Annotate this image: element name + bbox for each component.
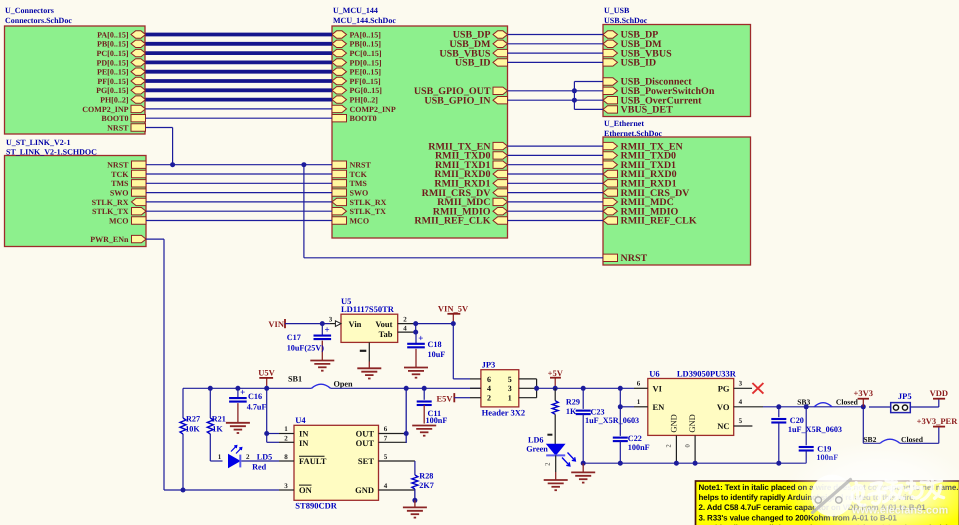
wire USB_ID [508, 61, 604, 63]
wire USB_DP [508, 34, 604, 36]
wire +5V rail [537, 387, 634, 389]
wire U5 output [416, 324, 454, 333]
sheet entry RMII_MDIO (MCU right) [433, 206, 508, 217]
sheet entry NRST (U_Connectors) [107, 123, 145, 132]
sheet entry USB_DP (USB) [603, 30, 658, 41]
sheet entry NRST (MCU left) [332, 161, 372, 170]
sheet entry STLK_TX (U_ST_LINK) [92, 207, 146, 216]
svg-text:PF[0..15]: PF[0..15] [97, 77, 128, 86]
svg-text:PG: PG [718, 383, 730, 393]
svg-text:USB_GPIO_IN: USB_GPIO_IN [424, 95, 491, 106]
pin 8 of U4 [279, 453, 294, 461]
svg-text:BOOT0: BOOT0 [101, 114, 128, 123]
power port +5V [548, 368, 564, 388]
svg-text:C22: C22 [628, 434, 642, 443]
sheet entry RMII_TXD1 (Ethernet) [603, 160, 676, 171]
svg-text:100nF: 100nF [426, 416, 448, 425]
wire 5V rail right of SB1 [331, 387, 481, 389]
junction C19 top / SB3 left [804, 404, 809, 409]
pin 4 of U5 (Tab) [398, 324, 416, 332]
sheet entry PE[0..15] (U_Connectors) [97, 68, 146, 77]
power port E5V [436, 393, 454, 404]
wire NRST branch to Ethernet [304, 165, 603, 258]
wire RMII_REF_CLK [508, 220, 604, 222]
sheet entry USB_Disconnect (USB) [603, 77, 692, 88]
sheet entry PB[0..15] (U_Connectors) [97, 40, 146, 49]
junction C20 bottom [776, 461, 781, 466]
wire JP5 to VDD [910, 399, 939, 407]
svg-text:100nF: 100nF [628, 443, 650, 452]
power port VIN_5V [438, 303, 469, 323]
svg-text:LD6: LD6 [528, 436, 543, 445]
svg-text:STLK_TX: STLK_TX [350, 207, 387, 216]
wire SWO [146, 192, 332, 194]
sheet entry PA[0..15] (U_Connectors) [97, 30, 145, 39]
sheet entry RMII_TXD0 (MCU right) [435, 151, 508, 162]
svg-text:10uF: 10uF [428, 350, 446, 359]
sheet entry COMP2_INP (MCU left) [332, 105, 396, 114]
power port U5V [258, 367, 275, 388]
wire +3V3 to JP5 [869, 406, 891, 408]
ground under C11 [412, 426, 436, 436]
junction C23 bottom / gnd rail [581, 461, 586, 466]
sheet entry RMII_TX_EN (MCU right) [428, 141, 507, 152]
watermark glow [785, 440, 959, 525]
junction C20 top [776, 404, 781, 409]
svg-text:MCU_144.SchDoc: MCU_144.SchDoc [333, 16, 396, 25]
svg-text:7: 7 [384, 434, 388, 442]
svg-text:NRST: NRST [350, 161, 372, 170]
pin 5 of JP3 [519, 378, 537, 380]
svg-text:8: 8 [284, 453, 288, 461]
svg-text:RMII_REF_CLK: RMII_REF_CLK [414, 216, 490, 227]
wire RMII_TXD0 [508, 154, 604, 156]
sheet entry PF[0..15] (U_Connectors) [97, 77, 145, 86]
svg-text:TCK: TCK [111, 170, 129, 179]
svg-text:1: 1 [218, 453, 222, 461]
svg-text:2: 2 [487, 394, 491, 403]
svg-text:U_Ethernet: U_Ethernet [604, 119, 644, 128]
svg-text:1uF_X5R_0603: 1uF_X5R_0603 [788, 425, 842, 434]
power port VIN [268, 319, 285, 329]
sheet entry BOOT0 (MCU left) [332, 114, 377, 123]
junction VIN_5V [451, 321, 456, 326]
sheet entry STLK_RX (U_ST_LINK) [92, 198, 146, 207]
pin 4 of U4 [379, 482, 415, 490]
sheet entry PD[0..15] (MCU left) [332, 58, 382, 67]
sheet entry PG[0..15] (U_Connectors) [96, 86, 145, 95]
sheet entry STLK_RX (MCU left) [332, 198, 387, 207]
junction U4 OUT riser [404, 386, 409, 391]
svg-text:U_ST_LINK_V2-1: U_ST_LINK_V2-1 [6, 138, 70, 147]
svg-text:COMP2_INP: COMP2_INP [350, 105, 396, 114]
sheet entry USB_VBUS (MCU right) [439, 48, 507, 59]
capacitor C23 1uF_X5R_0603 [576, 388, 639, 463]
junction C22/EN riser top [618, 386, 623, 391]
sheet entry USB_GPIO_OUT (MCU right) [414, 86, 508, 97]
svg-text:+: + [325, 325, 330, 335]
sheet entry TMS (MCU left) [332, 179, 367, 188]
svg-text:STLK_RX: STLK_RX [92, 198, 129, 207]
wire ground rail [583, 462, 806, 464]
svg-text:NRST: NRST [621, 253, 648, 264]
transistor U4 ST890CDR power switch [294, 415, 379, 511]
wire E5V to JP3 pin2 [454, 397, 470, 399]
svg-text:VIN_5V: VIN_5V [438, 303, 469, 313]
junction U5 out pin4 [413, 330, 418, 335]
sheet entry PH[0..2] (U_Connectors) [100, 96, 145, 105]
ground under C16 [226, 423, 250, 433]
op-amp U6 LD39050PU33R regulator [648, 369, 737, 436]
pin 4 of JP3 [470, 387, 481, 389]
wire EN to U6 [620, 406, 634, 408]
pin 1 of U5 GND [360, 342, 370, 368]
watermark elecfans logo circle [811, 475, 853, 517]
svg-text:1K: 1K [212, 424, 223, 433]
svg-text:SB1: SB1 [288, 375, 302, 384]
svg-text:R29: R29 [566, 397, 580, 406]
resistor R28 2K7 [412, 461, 434, 500]
sheet entry PB[0..15] (MCU left) [332, 40, 381, 49]
wire USB_VBUS [508, 52, 604, 54]
svg-text:Green: Green [526, 444, 548, 453]
svg-text:PC[0..15]: PC[0..15] [350, 49, 382, 58]
no connect X on PG [752, 383, 763, 394]
wire NRST ST-LINK to MCU [146, 164, 332, 166]
svg-text:COMP2_INP: COMP2_INP [82, 105, 128, 114]
svg-text:SWO: SWO [110, 189, 129, 198]
sheet entry MCO (U_ST_LINK) [109, 216, 146, 225]
svg-text:5: 5 [739, 417, 743, 425]
svg-text:10uF(25V): 10uF(25V) [287, 344, 325, 353]
ground under U4 [403, 500, 427, 517]
bus PH U_Connectors to MCU [146, 98, 333, 102]
sheet entry USB_OverCurrent (USB) [603, 95, 702, 106]
sheet entry PF[0..15] (MCU left) [332, 77, 381, 86]
svg-text:2: 2 [284, 434, 288, 442]
svg-text:JP3: JP3 [482, 359, 496, 369]
svg-text:NRST: NRST [107, 123, 129, 132]
junction R28/GND [412, 498, 417, 503]
svg-text:GND: GND [355, 485, 374, 495]
ground at C23 [571, 463, 595, 482]
pin 3 of U4 [279, 482, 294, 490]
wire COMP2_INP [146, 108, 333, 110]
pin 5 of U4 [379, 453, 415, 461]
sheet entry RMII_MDIO (Ethernet) [603, 206, 678, 217]
bus PA U_Connectors to MCU [146, 33, 333, 37]
sheet entry TCK (MCU left) [332, 170, 368, 179]
wire STLK_RX [146, 201, 332, 203]
svg-text:3: 3 [284, 482, 288, 490]
sheet entry RMII_RXD1 (MCU right) [434, 179, 507, 190]
svg-text:IN: IN [299, 438, 309, 448]
capacitor C18 10uF [407, 332, 445, 367]
sheet entry RMII_REF_CLK (MCU right) [414, 216, 507, 227]
pin 1 of U4 [279, 425, 294, 433]
pin 3 of U5 with input arrow [329, 316, 341, 327]
svg-text:MCO: MCO [350, 216, 370, 225]
junction U5 out pin2 [413, 321, 418, 326]
sheet entry BOOT0 (U_Connectors) [101, 114, 145, 123]
svg-text:TMS: TMS [111, 179, 129, 188]
svg-text:Header 3X2: Header 3X2 [482, 407, 526, 417]
capacitor C16 4.7uF [229, 387, 266, 423]
svg-text:Ethernet.SchDoc: Ethernet.SchDoc [604, 129, 662, 138]
svg-text:5: 5 [508, 375, 512, 384]
sheet entry RMII_CRS_DV (Ethernet) [603, 188, 690, 199]
svg-text:C16: C16 [248, 392, 262, 401]
svg-text:0: 0 [685, 444, 692, 447]
svg-text:6: 6 [384, 425, 388, 433]
svg-text:Open: Open [334, 380, 354, 389]
pin 3 of U6 [734, 379, 752, 388]
svg-text:3: 3 [329, 316, 333, 324]
pin 0 of U6 (pad) [685, 435, 696, 463]
svg-text:Tab: Tab [379, 329, 393, 339]
sheet entry RMII_TX_EN (Ethernet) [603, 141, 684, 152]
svg-text:JP5: JP5 [898, 391, 912, 401]
svg-text:+3V3_PER: +3V3_PER [917, 416, 959, 426]
svg-text:5: 5 [384, 453, 388, 461]
sheet entry PH[0..2] (MCU left) [332, 96, 378, 105]
sheet entry RMII_TXD1 (MCU right) [435, 160, 508, 171]
svg-text:U4: U4 [295, 415, 306, 425]
sheet symbol U_Connectors [5, 6, 146, 134]
svg-text:OUT: OUT [356, 438, 375, 448]
svg-text:C20: C20 [790, 416, 804, 425]
wire BOOT0 [146, 117, 333, 119]
sheet entry RMII_MDC (Ethernet) [603, 197, 674, 208]
wire SB2 to +3V3_PER [900, 427, 939, 444]
sheet entry PWR_ENn (U_ST_LINK) [90, 235, 146, 244]
svg-text:PF[0..15]: PF[0..15] [350, 77, 381, 86]
sheet entry USB_VBUS (USB) [603, 48, 672, 59]
svg-text:BOOT0: BOOT0 [350, 114, 377, 123]
svg-text:PH[0..2]: PH[0..2] [100, 96, 129, 105]
svg-text:GND: GND [687, 414, 697, 432]
junction C22 bottom [618, 461, 623, 466]
wire TMS [146, 182, 332, 184]
svg-text:STLK_RX: STLK_RX [350, 198, 387, 207]
LED LD5 Red [218, 446, 273, 472]
sheet entry MCO (MCU left) [332, 216, 369, 225]
svg-text:Connectors.SchDoc: Connectors.SchDoc [5, 16, 72, 25]
solder bridge SB3 Closed [797, 397, 858, 407]
svg-text:PH[0..2]: PH[0..2] [350, 96, 379, 105]
junction IN pin1 [264, 431, 269, 436]
junction EN tie [618, 404, 623, 409]
svg-text:1: 1 [284, 425, 288, 433]
svg-text:PG[0..15]: PG[0..15] [350, 86, 383, 95]
solder bridge SB1 Open [288, 375, 353, 389]
wire JP3 right pins tie [536, 379, 538, 398]
pin 2 of U5 [398, 315, 416, 323]
wire TCK [146, 173, 332, 175]
junction at USB_OverCurrent [572, 98, 577, 103]
sheet entry COMP2_INP (U_Connectors) [82, 105, 145, 114]
bus PB U_Connectors to MCU [146, 42, 333, 46]
pin 1 of U6 [634, 398, 648, 407]
svg-text:2: 2 [666, 444, 673, 447]
junction JP3 pin3 [534, 386, 539, 391]
svg-text:1K: 1K [566, 407, 577, 416]
sheet entry RMII_RXD0 (Ethernet) [603, 169, 677, 180]
note box Note1 [696, 481, 959, 525]
sheet entry TCK (U_ST_LINK) [111, 170, 146, 179]
svg-text:PG[0..15]: PG[0..15] [96, 86, 129, 95]
svg-text:2: 2 [403, 315, 407, 323]
svg-text:Vin: Vin [349, 319, 362, 329]
wire USB_GPIO_OUT to USB_PowerSwitchOn [508, 90, 604, 92]
svg-text:U5V: U5V [258, 367, 275, 377]
LED LD6 Green [526, 435, 575, 466]
sheet entry RMII_RXD0 (MCU right) [434, 169, 507, 180]
junction U6 gnd pin2 [674, 461, 679, 466]
svg-text:2: 2 [246, 453, 250, 461]
sheet entry SWO (MCU left) [332, 189, 368, 198]
junction NRST at x303.9 [301, 162, 306, 167]
sheet entry PE[0..15] (MCU left) [332, 68, 381, 77]
svg-text:RMII_REF_CLK: RMII_REF_CLK [621, 216, 697, 227]
svg-text:ST890CDR: ST890CDR [295, 501, 337, 511]
sheet symbol U_USB [603, 6, 751, 117]
svg-text:SET: SET [358, 456, 374, 466]
junction C11 top [422, 386, 427, 391]
bus PC U_Connectors to MCU [146, 51, 333, 55]
wire PWR_ENn [146, 239, 279, 490]
svg-text:PA[0..15]: PA[0..15] [97, 30, 129, 39]
sheet entry RMII_REF_CLK (Ethernet) [603, 216, 697, 227]
svg-text:1: 1 [637, 398, 641, 406]
junction R21 top [208, 386, 213, 391]
sheet symbol U_Ethernet [603, 119, 751, 265]
wire STLK_TX [146, 210, 332, 212]
svg-text:+3V3: +3V3 [854, 388, 873, 398]
sheet entry USB_ID (MCU right) [455, 58, 508, 69]
svg-text:PD[0..15]: PD[0..15] [97, 58, 129, 67]
svg-text:STLK_TX: STLK_TX [92, 207, 129, 216]
bus PD U_Connectors to MCU [146, 61, 333, 65]
junction +3V3 node [861, 404, 866, 409]
sheet entry USB_DM (MCU right) [449, 39, 507, 50]
power port +3V3_PER [917, 416, 959, 427]
svg-text:GND: GND [668, 414, 678, 432]
svg-text:USB_ID: USB_ID [621, 58, 657, 69]
svg-text:+: + [240, 387, 245, 397]
svg-text:3: 3 [508, 384, 512, 393]
wire RMII_TXD1 [508, 164, 604, 166]
svg-text:Vout: Vout [375, 319, 392, 329]
pin 3 of JP3 [519, 387, 537, 389]
svg-text:VBUS_DET: VBUS_DET [621, 105, 674, 116]
wire RMII_MDIO [508, 210, 604, 212]
power port VDD [930, 388, 948, 399]
svg-text:ST_LINK_V2-1.SCHDOC: ST_LINK_V2-1.SCHDOC [6, 148, 97, 157]
svg-text:PWR_ENn: PWR_ENn [90, 235, 129, 244]
wire VIN_5V down to JP3 pin6 [453, 324, 470, 379]
solder bridge SB2 Closed [863, 435, 923, 444]
pin 1 of JP3 [519, 397, 537, 399]
resistor R21 1K [207, 388, 226, 461]
wire MCO [146, 220, 332, 222]
svg-text:4.7uF: 4.7uF [247, 402, 267, 411]
svg-text:+: + [418, 333, 423, 343]
pin 5 of U6 [734, 417, 753, 426]
svg-text:+5V: +5V [548, 368, 564, 378]
svg-text:E5V: E5V [436, 394, 453, 404]
ground under U5 [357, 368, 381, 378]
svg-text:6: 6 [637, 379, 641, 387]
wire NRST from U_Connectors [146, 128, 173, 165]
sheet symbol U_ST_LINK_V2-1 [5, 138, 147, 247]
wire GND pin to R28 bottom [414, 490, 416, 500]
svg-text:USB.SchDoc: USB.SchDoc [604, 16, 648, 25]
sheet entry USB_PowerSwitchOn (USB) [603, 86, 715, 97]
svg-text:2: 2 [544, 463, 551, 466]
sheet entry RMII_MDC (MCU right) [437, 197, 507, 208]
ground under C17 [310, 361, 334, 371]
wire VIN to U5 pin3 [285, 323, 330, 325]
sheet entry PC[0..15] (MCU left) [332, 49, 382, 58]
sheet entry USB_GPIO_IN (MCU right) [424, 95, 507, 106]
svg-text:R27: R27 [186, 415, 200, 424]
svg-text:PD[0..15]: PD[0..15] [350, 58, 382, 67]
junction U6 gnd pad [693, 461, 698, 466]
svg-text:TCK: TCK [350, 170, 368, 179]
sheet symbol U_MCU_144 [332, 6, 508, 238]
wire +3V3 down to SB2 [863, 407, 880, 444]
capacitor C11 100nF [417, 388, 448, 425]
svg-text:VIN: VIN [268, 319, 284, 329]
svg-text:NRST: NRST [107, 161, 129, 170]
svg-text:4: 4 [403, 324, 407, 332]
bus PF U_Connectors to MCU [146, 79, 333, 83]
svg-text:OUT: OUT [356, 428, 375, 438]
capacitor C19 100nF [799, 407, 839, 463]
pin 6 of JP3 [470, 378, 481, 380]
svg-text:www.elecfans.com: www.elecfans.com [851, 505, 948, 517]
sheet entry PD[0..15] (U_Connectors) [97, 58, 146, 67]
svg-text:2K7: 2K7 [419, 481, 434, 490]
pin 6 of U6 [634, 379, 648, 388]
svg-text:PA[0..15]: PA[0..15] [350, 30, 382, 39]
sheet entry PG[0..15] (MCU left) [332, 86, 382, 95]
pin 6 of U4 [379, 425, 407, 433]
sheet entry RMII_CRS_DV (MCU right) [422, 188, 508, 199]
wire RMII_CRS_DV [508, 192, 604, 194]
svg-text:ON: ON [299, 485, 313, 495]
connector JP3 Header 3X2 [481, 359, 525, 417]
bus PE U_Connectors to MCU [146, 70, 333, 74]
wire USB_Disconnect / VBUS_DET tie [574, 82, 603, 110]
svg-text:4: 4 [384, 482, 388, 490]
svg-text:R28: R28 [419, 471, 433, 480]
sheet entry RMII_RXD1 (Ethernet) [603, 179, 677, 190]
junction NRST at x172.6 [170, 162, 175, 167]
junction OUT pins [404, 431, 409, 436]
junction C17 tap [320, 321, 325, 326]
ground under C18 [404, 368, 428, 378]
svg-text:PE[0..15]: PE[0..15] [350, 68, 382, 77]
svg-text:LD1117S50TR: LD1117S50TR [341, 304, 395, 314]
svg-text:U6: U6 [649, 369, 659, 379]
op-amp U5 LD1117S50TR regulator [341, 296, 398, 342]
sheet entry SWO (U_ST_LINK) [110, 189, 146, 198]
watermark chinese calligraphy [852, 477, 944, 506]
junction at USB_PowerSwitchOn [572, 88, 577, 93]
wire VO output [763, 406, 863, 408]
